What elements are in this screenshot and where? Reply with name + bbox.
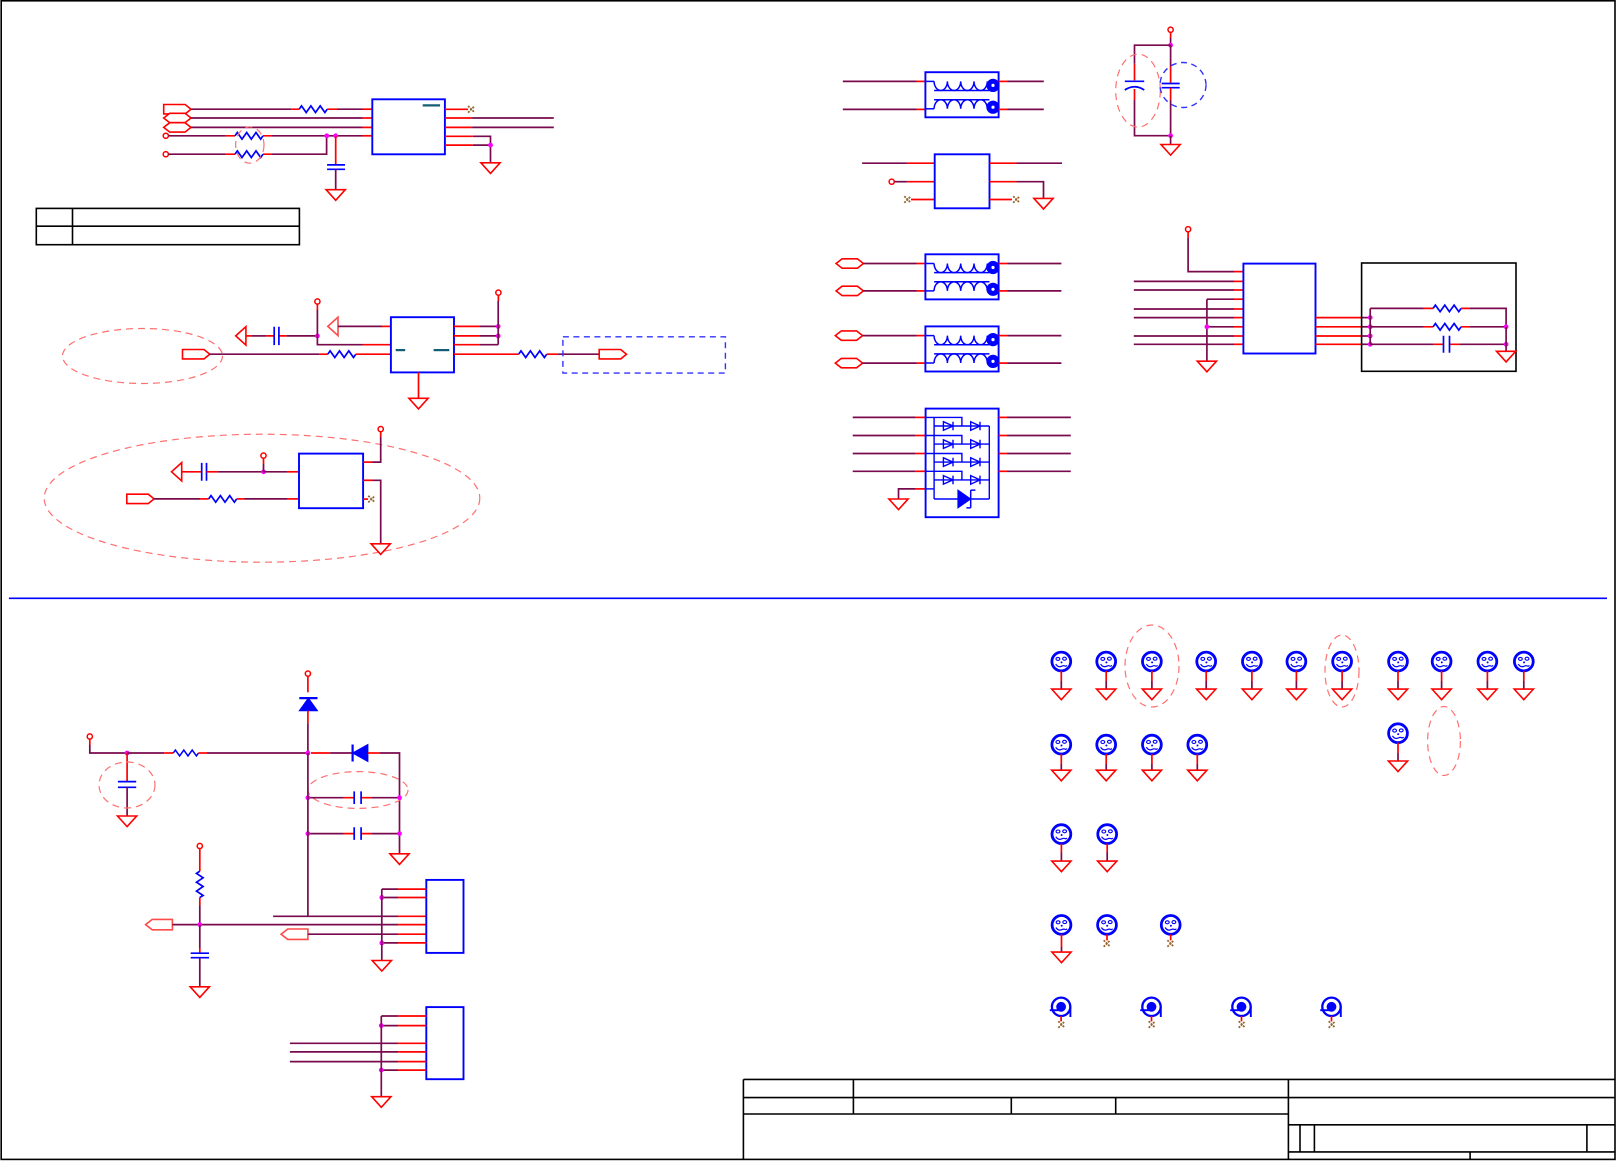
- wire riser node rail: [1369, 308, 1371, 344]
- mounting hole MK16: [1388, 724, 1407, 772]
- resistor R3: [235, 151, 263, 158]
- wire L1 out top: [1008, 80, 1044, 82]
- wire red stub U3 pin2: [288, 498, 299, 500]
- wire red stub U3 out1: [363, 461, 372, 463]
- junction node B3: [496, 334, 501, 339]
- mounting hole MK8: [1388, 652, 1407, 700]
- wire U2 out3 corner: [479, 344, 498, 346]
- port P3: [164, 123, 191, 132]
- wire red stub U8 pin3: [398, 1042, 426, 1044]
- wire L3 out bottom: [1008, 362, 1062, 364]
- wire red R10 bottom stub: [199, 898, 201, 906]
- wire red stub U4 in1: [907, 162, 935, 164]
- mounting hole MK11: [1514, 652, 1533, 700]
- wire red stub U6 out1: [1316, 317, 1362, 319]
- wire red stub U6 pin2: [1234, 280, 1243, 282]
- wire red D1 cathode: [307, 676, 309, 692]
- fiducial FID4: [1320, 998, 1341, 1028]
- mounting hole MK20: [1098, 916, 1117, 947]
- wire node F2 to C8: [308, 797, 344, 799]
- wire U5 out1: [1007, 416, 1071, 418]
- wire red stub U2 out4: [454, 353, 519, 355]
- wire U6 pin7 from rail: [1207, 326, 1234, 328]
- wire red stubs C9: [344, 833, 372, 835]
- wire U8 rail pin2: [381, 1025, 398, 1027]
- fiducial FID2: [1140, 998, 1161, 1028]
- resistor R2: [235, 133, 263, 140]
- mounting hole MK5: [1242, 652, 1261, 700]
- wire red stub U6 pin7: [1234, 326, 1243, 328]
- mounting hole MK19: [1052, 916, 1071, 963]
- mounting hole MK15: [1188, 735, 1207, 781]
- wire L1 in bottom: [843, 108, 917, 110]
- wire loop to C4: [1135, 45, 1171, 64]
- wire J7 to node D1: [1170, 38, 1172, 45]
- junction node G1: [197, 922, 202, 927]
- junction node F1: [306, 751, 311, 756]
- wire red stub U5 in4: [916, 470, 926, 472]
- wire U2 out2 to node: [479, 335, 498, 337]
- resistor R7: [1433, 305, 1461, 312]
- wire C7 to ground: [126, 787, 128, 816]
- fiducial FID3: [1230, 998, 1251, 1028]
- module box M1: [1362, 263, 1516, 371]
- pin J4: [496, 290, 501, 295]
- wire J8 stub: [894, 181, 907, 183]
- wire red pin stub R1 left: [291, 108, 337, 110]
- wire C4 to bottom loop: [1135, 100, 1171, 136]
- wire R5 to P5: [558, 353, 599, 355]
- wire red stub U5 out3: [999, 453, 1007, 455]
- capacitor C7: [118, 782, 136, 788]
- junction node F0: [125, 751, 130, 756]
- capacitor C9: [354, 827, 361, 840]
- mounting hole MK3: [1142, 652, 1161, 700]
- op-amp U1: [372, 99, 445, 154]
- wire U4 out2 corner: [1017, 182, 1044, 199]
- dashed highlight ellipse R2/R3: [236, 127, 264, 163]
- wire U6 pin2: [1134, 280, 1234, 282]
- wire U7 rail pin6: [382, 942, 398, 944]
- wire net TX+: [472, 117, 554, 119]
- dashed highlight ellipse C: [44, 434, 480, 562]
- wire U6 pin3: [1134, 289, 1234, 291]
- U1 internal mark: [423, 104, 440, 106]
- junction node A2: [333, 133, 338, 138]
- wire red stub U6 out4: [1316, 343, 1362, 345]
- wire J1 to R2: [169, 135, 226, 137]
- wire red C10 top stub: [199, 948, 201, 953]
- wire red stub U7 pin3: [398, 915, 426, 917]
- port P7: [836, 259, 863, 268]
- wire red stub U8 pin4: [398, 1051, 426, 1053]
- buffer U2: [391, 317, 454, 372]
- resistor R8: [1433, 324, 1461, 331]
- wire U2 ground stem: [418, 372, 420, 398]
- revision table: [36, 208, 299, 244]
- ground GND14: [372, 1097, 391, 1108]
- wire red J6 stub: [380, 432, 382, 437]
- wire node G1 to C10: [199, 925, 201, 948]
- choke L3: [925, 326, 999, 371]
- wire red stub U8 pin5: [398, 1061, 426, 1063]
- resistor R9: [173, 750, 198, 756]
- wire U5 in2: [853, 435, 916, 437]
- wire red C1 top: [335, 136, 337, 165]
- wire U6 out4 to node: [1361, 343, 1370, 345]
- wire U5 in3: [853, 453, 916, 455]
- wire R9 to node F1: [207, 752, 308, 754]
- port P8: [836, 286, 863, 295]
- wire red stub U7 pin1: [398, 888, 426, 890]
- wire red J7 stub: [1170, 32, 1172, 38]
- capacitor C1: [327, 165, 345, 169]
- wire red R5 right stub: [547, 353, 559, 355]
- mounting hole MK14: [1142, 735, 1161, 781]
- wire U6 pin4 from rail: [1207, 298, 1234, 300]
- wire right rail down: [399, 753, 401, 854]
- mounting hole MK21: [1161, 916, 1180, 947]
- driver U3: [299, 454, 363, 509]
- wire D1 to node F1: [307, 723, 309, 753]
- wire node F0 to R9: [127, 752, 164, 754]
- wire U5 out2: [1007, 435, 1071, 437]
- wire U8 pin3: [290, 1042, 398, 1044]
- wire net TX-: [472, 126, 554, 128]
- capacitor C3: [202, 463, 207, 481]
- dashed highlight ellipse B: [63, 329, 223, 384]
- capacitor C2: [274, 327, 279, 345]
- wire U6 out1 to node: [1361, 317, 1370, 319]
- dashed blue circle C5: [1160, 63, 1206, 108]
- mounting hole MK10: [1478, 652, 1497, 700]
- wire node F4 to C9: [308, 833, 344, 835]
- U2 internal mark 2: [434, 349, 450, 351]
- ground GND11: [390, 854, 409, 865]
- capacitor C8: [354, 791, 361, 804]
- wire U7 rail pin2: [382, 897, 398, 899]
- wire C10 to ground: [199, 958, 201, 987]
- wire red stub L2 in top: [917, 263, 926, 265]
- wire J4 rail down: [497, 301, 499, 345]
- ground GND5: [1161, 145, 1180, 156]
- mounting hole MK17: [1052, 825, 1071, 872]
- wire U8 pin5: [290, 1061, 398, 1063]
- port P5: [599, 350, 626, 359]
- junction node F5: [397, 831, 402, 836]
- wire U7 ground rail: [381, 889, 383, 960]
- port P12: [281, 929, 308, 939]
- wire R7 to corner: [1470, 308, 1506, 326]
- ground GND8: [1197, 361, 1216, 372]
- horizontal page divider rule: [9, 597, 1607, 599]
- ground GND1: [326, 190, 345, 201]
- port P9: [835, 331, 862, 340]
- dashed highlight ellipse MK3: [1125, 625, 1179, 707]
- wire U7 rail corner pin1: [382, 888, 398, 890]
- wire red stubs C6: [1433, 343, 1460, 345]
- junction node F4: [306, 831, 311, 836]
- wire R8 to rail: [1470, 326, 1506, 328]
- wire U4 in1: [862, 162, 907, 164]
- port P4: [183, 350, 210, 359]
- wire red stub U6 pin4: [1234, 298, 1243, 300]
- wire main rail down: [307, 753, 309, 916]
- ground GND13: [372, 961, 391, 972]
- junction node C1: [261, 469, 266, 474]
- wire net MDI1+: [191, 126, 363, 128]
- junction node D1: [1168, 43, 1173, 48]
- capacitor C10: [191, 953, 209, 958]
- dashed target box: [563, 337, 726, 373]
- wire J3 down to U2 pin3: [317, 310, 362, 345]
- port P11: [146, 919, 173, 929]
- wire red stub U3 pin1: [288, 471, 299, 473]
- ground GND10: [118, 816, 137, 827]
- port P1: [164, 105, 191, 114]
- junction node E4: [1368, 342, 1373, 347]
- wire L3 out top: [1008, 335, 1062, 337]
- dashed highlight ellipse C4: [1116, 54, 1161, 127]
- wire red J4 stub: [497, 295, 499, 301]
- ground GND7: [889, 499, 908, 510]
- resistor R10: [197, 871, 204, 897]
- arrow connector A1: [236, 327, 246, 345]
- pin J12: [197, 843, 202, 848]
- wire red D2 left stub: [311, 752, 330, 754]
- wire red stub U5 gnd: [916, 488, 926, 490]
- wire red stub L2 out bottom: [999, 290, 1008, 292]
- resistor R5: [519, 351, 547, 358]
- junction node A3: [488, 143, 493, 148]
- wire U6 out3 to node: [1361, 335, 1370, 337]
- port P10: [835, 358, 862, 367]
- wire red C4 top stub: [1134, 64, 1136, 80]
- dashed highlight ellipse C7: [99, 762, 155, 808]
- wire red stub U6 pin9: [1234, 343, 1243, 345]
- wire red D2 right stub: [368, 752, 379, 754]
- no-connect X4: [1013, 196, 1020, 203]
- wire C6 to rail: [1460, 343, 1506, 345]
- wire red R6 right stub: [237, 498, 245, 500]
- wire red stub R4 left: [320, 353, 328, 355]
- wire U6 pin6: [1134, 317, 1234, 319]
- wire red stub L3 out top: [999, 335, 1008, 337]
- connector U7: [426, 880, 463, 953]
- wire red J3 stub: [316, 304, 318, 310]
- dashed highlight ellipse MK7: [1325, 635, 1359, 707]
- wire to D2: [330, 752, 353, 754]
- wire J5 to node: [263, 464, 265, 472]
- mounting hole MK1: [1052, 652, 1071, 700]
- connector U8: [426, 1007, 463, 1079]
- ground GND6: [1034, 198, 1053, 209]
- wire red stub L2 in bottom: [917, 290, 926, 292]
- wire red stub L3 out bottom: [999, 362, 1008, 364]
- wire ground rail U6: [1206, 299, 1208, 361]
- wire U6 pin8: [1134, 335, 1234, 337]
- junction node E3: [1368, 334, 1373, 339]
- wire red stub U6 out2: [1316, 326, 1362, 328]
- wire C3 to node C1: [218, 471, 264, 473]
- junction node B1: [315, 334, 320, 339]
- mounting hole MK2: [1097, 652, 1116, 700]
- choke L2: [925, 254, 999, 299]
- wire U6 pin9: [1134, 343, 1234, 345]
- wire red stub U8 pin2: [398, 1025, 426, 1027]
- wire L2 out top: [1008, 263, 1062, 265]
- wire red stubs C8: [344, 797, 372, 799]
- wire red stub L1 in bottom: [917, 108, 926, 110]
- wire red stub U6 pin3: [1234, 289, 1243, 291]
- junction node G4: [379, 1023, 384, 1028]
- wire red stubs R7: [1424, 307, 1470, 309]
- wire U1 out4 corner: [473, 136, 491, 163]
- wire red stub R9 left: [164, 752, 173, 754]
- wire U4 out1: [1017, 162, 1063, 164]
- wire red stub U3 out2: [363, 479, 372, 481]
- wire P8 to L2: [863, 290, 916, 292]
- wire C9 to rail: [371, 833, 399, 835]
- wire U8 rail corner pin1: [381, 1015, 398, 1017]
- diode D1: [299, 698, 317, 711]
- wire P12 to U7 pin5: [308, 933, 398, 935]
- junction node E5: [1504, 324, 1509, 329]
- wire J11 corner: [90, 745, 127, 753]
- wire L2 out bottom: [1008, 290, 1062, 292]
- mounting hole MK6: [1287, 652, 1306, 700]
- wire red D1 anode: [307, 711, 309, 724]
- wire red J5 stub: [263, 458, 265, 464]
- wire red stub U1 pin4: [363, 135, 373, 137]
- wire U3 out2 corner down: [373, 480, 381, 544]
- wire U8 pin4: [290, 1051, 398, 1053]
- wire red stub R9 right: [199, 752, 208, 754]
- resistor R1: [299, 106, 327, 113]
- wire red stubs R8: [1424, 326, 1470, 328]
- wire red stub U1 out2: [445, 117, 472, 119]
- wire P11 across: [172, 924, 398, 926]
- wire into U1 pin1: [337, 108, 363, 110]
- wire C5 to node D2: [1170, 100, 1172, 136]
- wire bus row3: [273, 915, 398, 917]
- wire red stub U2 out1: [454, 325, 479, 327]
- wire red stub U5 out2: [999, 435, 1007, 437]
- wire J9 to U6 pin1: [1188, 238, 1234, 272]
- wire red stub U4 in3: [911, 199, 935, 201]
- wire red stub U2 pin1: [382, 325, 391, 327]
- wire red C5 top stub: [1170, 67, 1172, 84]
- resistor R6: [209, 496, 237, 503]
- wire red stub C2: [266, 335, 287, 337]
- fiducial FID1: [1050, 998, 1071, 1028]
- wire red stub U6 pin1: [1234, 271, 1243, 273]
- wire red stub U5 out4: [999, 470, 1007, 472]
- junction node G3: [379, 941, 384, 946]
- wire red stub U4 out2: [990, 181, 1017, 183]
- wire J2 to R3: [169, 153, 226, 155]
- regulator U4: [935, 154, 990, 208]
- wire red stub U5 in1: [916, 416, 926, 418]
- wire red C5 bottom stub: [1170, 88, 1172, 100]
- wire U1 out5 to node: [473, 144, 491, 146]
- wire red stub U4 out1: [990, 162, 1017, 164]
- arrow connector A3: [172, 463, 182, 481]
- wire red R4 to U2 pin4: [356, 353, 391, 355]
- wire U5 gnd pin: [899, 489, 916, 499]
- ground GND3: [409, 398, 428, 409]
- pin J2: [163, 152, 168, 157]
- wire node D2 to ground: [1170, 136, 1172, 145]
- mounting hole MK13: [1097, 735, 1116, 781]
- wire red stub U8 pin1: [398, 1015, 426, 1017]
- TVS array U5: [926, 409, 999, 518]
- wire P7 to L2: [863, 263, 916, 265]
- wire red stub L1 out top: [999, 80, 1008, 82]
- wire red stub U4 in2: [907, 181, 935, 183]
- wire red stub U1 out1: [445, 108, 468, 110]
- controller U6: [1243, 264, 1315, 354]
- wire U6 pin5: [1134, 308, 1234, 310]
- pin J3: [315, 299, 320, 304]
- wire red stubs R3: [226, 153, 272, 155]
- pin J10: [305, 671, 310, 676]
- wire red J9 stub: [1187, 232, 1189, 238]
- wire red C4 bottom stub: [1134, 89, 1136, 100]
- wire P6 to R6: [154, 498, 200, 500]
- pin J9: [1186, 227, 1191, 232]
- no-connect X2: [368, 496, 375, 503]
- wire C2 to node B1: [287, 335, 318, 337]
- wire U5 out4: [1007, 470, 1071, 472]
- no-connect X1: [468, 106, 475, 113]
- wire A1 to C2: [252, 335, 266, 337]
- wire red stub U7 pin2: [398, 897, 426, 899]
- junction node A1: [324, 133, 329, 138]
- junction node G2: [379, 895, 384, 900]
- pin J7: [1168, 27, 1173, 32]
- wire U8 ground rail: [380, 1016, 382, 1097]
- capacitor C5: [1162, 84, 1180, 88]
- wire red stub U3 out3: [363, 498, 368, 500]
- port P6: [127, 494, 154, 503]
- wire U5 in4: [853, 470, 916, 472]
- capacitor C6: [1444, 336, 1450, 353]
- dashed highlight ellipse empty: [1428, 707, 1461, 776]
- wire red stub R6 left: [200, 498, 209, 500]
- wire D2 to right rail: [379, 752, 399, 755]
- wire rail to ground: [1505, 327, 1507, 352]
- dashed highlight ellipse C8: [308, 772, 408, 809]
- wire R2 to U1 pin4: [272, 135, 363, 137]
- resistor R4: [328, 351, 356, 358]
- wire red stub U1 pin2: [363, 117, 373, 119]
- wire red stub U7 pin6: [398, 942, 426, 944]
- wire red stub U1 out4: [445, 135, 473, 137]
- wire red stub U5 out1: [999, 416, 1007, 418]
- junction node D3: [1205, 324, 1210, 329]
- wire red stub U1 pin1: [363, 108, 373, 110]
- ground GND12: [190, 987, 209, 998]
- junction node E1: [1368, 315, 1373, 320]
- U2 internal mark 1: [396, 349, 406, 351]
- wire red stub L1 out bottom: [999, 108, 1008, 110]
- pin J1: [163, 133, 168, 138]
- wire red stub U1 out5: [445, 144, 473, 146]
- junction node E2: [1368, 324, 1373, 329]
- pin J6: [378, 427, 383, 432]
- wire red stub U2 pin3: [363, 344, 391, 346]
